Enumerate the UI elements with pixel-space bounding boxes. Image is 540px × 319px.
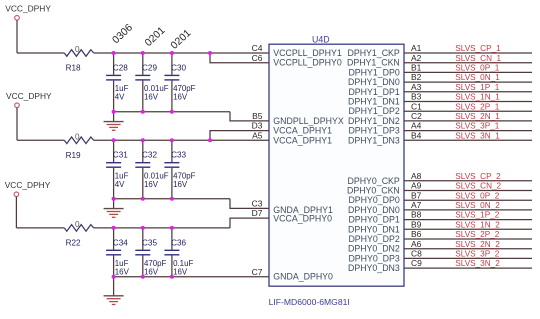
wire VCC_DPHY row 3 (VCC to R22 to cap bank 3) [16,227,230,229]
svg-text:GNDPLL_DPHYX: GNDPLL_DPHYX [273,116,344,126]
IC right pin names DPHY0 [347,176,400,273]
svg-text:B4: B4 [411,130,422,140]
svg-text:C32: C32 [142,151,157,160]
svg-text:SLVS_CN_1: SLVS_CN_1 [455,54,501,63]
svg-text:SLVS_3N_2: SLVS_3N_2 [455,259,500,268]
pin B6 wire / net SLVS_2P_2 [404,229,532,239]
svg-text:LIF-MD6000-6MG81I: LIF-MD6000-6MG81I [269,297,350,307]
wire ground rail bank 2 [114,198,230,200]
svg-text:C6: C6 [252,53,263,63]
svg-text:A6: A6 [411,239,422,249]
svg-text:B1: B1 [411,63,422,73]
svg-text:0: 0 [75,220,80,229]
svg-text:D3: D3 [252,121,263,131]
capacitor C35 470pF 16V [135,228,166,277]
svg-text:DPHY0_DP3: DPHY0_DP3 [348,253,399,263]
pin A3 wire / net SLVS_1P_1 [404,82,532,92]
svg-text:A9: A9 [411,181,422,191]
svg-text:4V: 4V [115,180,125,189]
svg-text:VCCA_DPHY0: VCCA_DPHY0 [273,213,332,223]
svg-text:A5: A5 [252,130,263,140]
svg-text:SLVS_2N_1: SLVS_2N_1 [455,112,500,121]
pin B8 wire / net SLVS_1P_2 [404,210,532,220]
ground symbol bank 2 [104,199,124,218]
IC right pin names DPHY1 [347,48,400,145]
junction dots bank 2 ground rail [112,197,174,201]
svg-text:SLVS_0P_1: SLVS_0P_1 [455,64,499,73]
svg-text:SLVS_CP_1: SLVS_CP_1 [455,44,501,53]
svg-text:SLVS_CN_2: SLVS_CN_2 [455,182,501,191]
svg-text:DPHY1_DP2: DPHY1_DP2 [348,106,399,116]
svg-text:DPHY0_CKP: DPHY0_CKP [347,176,399,186]
svg-text:C1: C1 [411,101,422,111]
svg-text:VCCPLL_DPHY0: VCCPLL_DPHY0 [273,58,342,68]
svg-text:C4: C4 [252,43,263,53]
svg-text:C7: C7 [252,267,263,277]
pin B9 wire / net SLVS_1N_2 [404,219,532,229]
svg-text:U4D: U4D [312,35,330,45]
svg-text:C31: C31 [113,151,128,160]
svg-text:DPHY1_DN3: DPHY1_DN3 [348,135,400,145]
wire ground rail bank 3 (to pin C7) [114,276,269,278]
pin A2 wire / net SLVS_CN_1 [404,53,532,63]
wire GND bank1 to pin B5 [230,112,269,121]
svg-text:R18: R18 [66,64,81,73]
svg-text:SLVS_0N_2: SLVS_0N_2 [455,201,500,210]
svg-text:DPHY1_DN1: DPHY1_DN1 [348,97,400,107]
resistor R22 value 0 [64,220,94,248]
svg-text:DPHY0_DN1: DPHY0_DN1 [348,224,400,234]
pin A6 wire / net SLVS_2N_2 [404,239,532,249]
svg-text:A1: A1 [411,43,422,53]
capacitor C36 0.1uF 16V [164,228,193,277]
svg-text:VCCA_DPHY1: VCCA_DPHY1 [273,135,332,145]
svg-text:B6: B6 [411,229,422,239]
svg-text:C2: C2 [411,111,422,121]
svg-text:C3: C3 [252,199,263,209]
pin B1 wire / net SLVS_0P_1 [404,63,532,73]
svg-text:B8: B8 [411,210,422,220]
svg-text:B9: B9 [411,219,422,229]
capacitor C32 0.01uF 16V [135,140,168,198]
capacitor C29 0.01uF 16V [135,53,168,112]
svg-text:SLVS_0P_2: SLVS_0P_2 [455,191,499,200]
svg-text:C29: C29 [142,63,157,72]
IC left pin names [273,48,344,282]
svg-text:A2: A2 [411,53,422,63]
wire VCC bank3 to pin D7 [230,218,269,228]
junction dots row 2 rail [112,138,212,142]
svg-text:SLVS_3N_1: SLVS_3N_1 [455,131,500,140]
pin A8 wire / net SLVS_CP_2 [404,171,532,181]
capacitor C31 1uF 4V [106,140,128,198]
svg-text:16V: 16V [115,268,130,277]
svg-text:R22: R22 [66,238,81,247]
junction dots bank 1 ground rail [112,110,174,114]
svg-text:16V: 16V [144,180,159,189]
resistor R18 value 0 [64,45,94,73]
pin A9 wire / net SLVS_CN_2 [404,181,532,191]
ground symbol bank 1 [104,112,124,131]
svg-text:VCC_DPHY: VCC_DPHY [5,4,51,14]
svg-text:16V: 16V [173,180,188,189]
svg-text:C33: C33 [171,151,186,160]
pin B4 wire / net SLVS_3N_1 [404,130,532,140]
junction dots bank 3 ground rail [112,275,174,279]
svg-text:VCC_DPHY: VCC_DPHY [6,91,52,101]
svg-text:16V: 16V [144,93,159,102]
svg-text:C35: C35 [142,238,157,247]
svg-text:SLVS_1P_2: SLVS_1P_2 [455,211,499,220]
svg-text:SLVS_1N_1: SLVS_1N_1 [455,93,500,102]
svg-text:DPHY0_DP2: DPHY0_DP2 [348,234,399,244]
pin C2 wire / net SLVS_2N_1 [404,111,532,121]
power symbol VCC_DPHY #3 [5,180,51,228]
svg-text:C28: C28 [113,63,128,72]
svg-text:B3: B3 [411,92,422,102]
svg-text:VCCA_DPHY1: VCCA_DPHY1 [273,126,332,136]
svg-text:SLVS_1P_1: SLVS_1P_1 [455,83,499,92]
pin B2 wire / net SLVS_0N_1 [404,72,532,82]
capacitor C30 470pF 16V [164,53,195,112]
svg-text:DPHY1_DN0: DPHY1_DN0 [348,77,400,87]
capacitor C33 470pF 16V [164,140,195,198]
resistor R19 value 0 [64,132,94,160]
power symbol VCC_DPHY #2 [6,91,52,140]
wire branch to pin D3 [210,131,269,141]
wire VCC_DPHY row 1 (VCC to R18 to cap bank 1 to pin C4) [17,52,269,54]
svg-text:DPHY0_DN0: DPHY0_DN0 [348,205,400,215]
capacitor C34 1uF 16V [106,228,129,277]
svg-text:DPHY0_DP1: DPHY0_DP1 [348,215,399,225]
wire GND bank2 to pin C3 [230,199,269,209]
svg-text:DPHY1_DP3: DPHY1_DP3 [348,126,399,136]
svg-text:A8: A8 [411,171,422,181]
svg-text:DPHY1_DP1: DPHY1_DP1 [348,87,399,97]
svg-text:16V: 16V [173,93,188,102]
power symbol VCC_DPHY #1 [5,4,51,53]
svg-text:SLVS_1N_2: SLVS_1N_2 [455,220,500,229]
svg-text:0: 0 [75,45,80,54]
pin B3 wire / net SLVS_1N_1 [404,92,532,102]
svg-text:A3: A3 [411,82,422,92]
IC U4D body LIF-MD6000-6MG81I [269,35,404,308]
svg-text:C34: C34 [113,238,128,247]
svg-text:0: 0 [75,132,80,141]
pin B7 wire / net SLVS_0P_2 [404,190,532,200]
svg-text:C8: C8 [411,249,422,259]
pin C8 wire / net SLVS_3P_2 [404,249,532,259]
svg-text:C9: C9 [411,258,422,268]
svg-text:D7: D7 [252,208,263,218]
svg-text:DPHY0_DN2: DPHY0_DN2 [348,244,400,254]
capacitor C28 1uF 4V [106,53,128,112]
svg-text:SLVS_2P_1: SLVS_2P_1 [455,102,499,111]
svg-text:B5: B5 [252,111,263,121]
junction dots row 1 rail [112,51,212,55]
svg-text:4V: 4V [115,93,125,102]
pin C9 wire / net SLVS_3N_2 [404,258,532,268]
svg-text:A4: A4 [411,121,422,131]
pin C1 wire / net SLVS_2P_1 [404,101,532,111]
svg-text:DPHY1_CKP: DPHY1_CKP [347,48,399,58]
pin A4 wire / net SLVS_3P_1 [404,121,532,131]
svg-text:SLVS_3P_1: SLVS_3P_1 [455,122,499,131]
svg-text:SLVS_2P_2: SLVS_2P_2 [455,230,499,239]
svg-text:A7: A7 [411,200,422,210]
svg-text:DPHY0_CKN: DPHY0_CKN [347,186,400,196]
svg-text:DPHY0_DN3: DPHY0_DN3 [348,263,400,273]
pin A1 wire / net SLVS_CP_1 [404,43,532,53]
svg-text:GNDA_DPHY0: GNDA_DPHY0 [273,272,333,282]
svg-text:DPHY1_DN2: DPHY1_DN2 [348,116,400,126]
ground symbol bank 3 [104,277,124,305]
svg-text:B7: B7 [411,190,422,200]
svg-text:16V: 16V [144,268,159,277]
svg-text:SLVS_2N_2: SLVS_2N_2 [455,240,500,249]
wire branch to pin C6 [210,53,269,63]
svg-text:SLVS_0N_1: SLVS_0N_1 [455,73,500,82]
svg-text:C30: C30 [171,63,186,72]
svg-text:SLVS_3P_2: SLVS_3P_2 [455,250,499,259]
svg-text:DPHY0_DP0: DPHY0_DP0 [348,195,399,205]
junction dots row 3 rail [112,226,174,230]
svg-text:DPHY1_DP0: DPHY1_DP0 [348,67,399,77]
svg-text:16V: 16V [173,268,188,277]
svg-text:VCC_DPHY: VCC_DPHY [5,180,51,190]
svg-text:VCCPLL_DPHY1: VCCPLL_DPHY1 [273,48,342,58]
svg-text:C36: C36 [171,238,186,247]
wire ground rail bank 1 [114,111,230,113]
wire VCC_DPHY row 2 (VCC to R19 to cap bank 2 to pin A5) [17,139,269,141]
svg-text:B2: B2 [411,72,422,82]
pin A7 wire / net SLVS_0N_2 [404,200,532,210]
svg-text:SLVS_CP_2: SLVS_CP_2 [455,172,501,181]
svg-text:DPHY1_CKN: DPHY1_CKN [347,58,400,68]
svg-text:R19: R19 [66,151,81,160]
